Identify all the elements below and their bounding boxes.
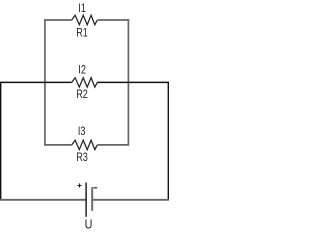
wire: outer loop left edge	[0, 82, 2, 201]
svg-text:R3: R3	[76, 150, 88, 164]
svg-text:I1: I1	[78, 1, 86, 15]
svg-text:R1: R1	[76, 26, 88, 40]
wire: outer loop right edge	[167, 82, 169, 201]
wire: bottom branch right segment (R3 to node)	[97, 144, 129, 146]
wire: bottom edge left of battery	[0, 199, 86, 201]
wire: left inner vertical (joins R1,R2,R3 branches)	[44, 19, 46, 145]
battery minus mark	[94, 187, 98, 189]
wire: middle branch left segment (outer loop to R2)	[0, 81, 72, 83]
svg-text:U: U	[85, 217, 93, 232]
wire: right inner vertical (joins R1,R2,R3 branches)	[127, 19, 129, 145]
resistor R2	[72, 78, 98, 87]
wire: bottom branch left segment (node to R3)	[44, 144, 72, 146]
wire: middle branch right segment (R2 to outer loop)	[97, 81, 169, 83]
svg-text:R2: R2	[76, 87, 88, 101]
wire: top branch left segment (node to R1)	[44, 19, 72, 21]
resistor R1	[72, 15, 98, 24]
wire: bottom edge right of battery	[93, 199, 169, 201]
battery U: negative plate (short, thick)	[91, 187, 93, 211]
battery plus mark	[77, 183, 81, 187]
svg-text:I2: I2	[78, 63, 86, 77]
svg-text:I3: I3	[78, 124, 86, 138]
wire: top branch right segment (R1 to node)	[97, 19, 129, 21]
resistor R3	[72, 140, 98, 149]
battery U: positive plate (long)	[85, 183, 87, 217]
